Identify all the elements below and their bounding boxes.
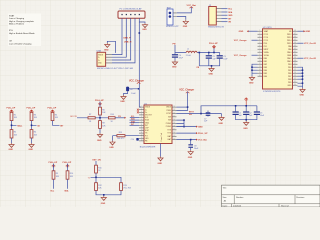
svg-text:22: 22 (173, 112, 175, 114)
wire U1 TS (113, 136, 140, 141)
svg-text:PC13: PC13 (264, 34, 269, 36)
svg-text:23: 23 (173, 109, 175, 111)
resistor R15 (horizontal) (117, 132, 125, 140)
junction (245, 105, 247, 107)
svg-text:R9: R9 (56, 173, 58, 175)
U2 right pins (293, 31, 298, 85)
svg-text:12: 12 (259, 63, 261, 65)
U1 right pin numbers (173, 106, 175, 141)
svg-text:44: 44 (294, 42, 296, 44)
svg-text:GND: GND (142, 29, 147, 31)
svg-text:PGND: PGND (166, 123, 172, 125)
wire J2 pin2 (222, 11, 228, 13)
wire USB shield to ground (107, 41, 115, 53)
svg-text:PA2: PA2 (264, 63, 267, 66)
svg-text:13: 13 (259, 66, 261, 68)
ground GND9 (243, 121, 249, 130)
svg-text:12: 12 (141, 134, 143, 136)
svg-text:R14: R14 (111, 114, 114, 116)
junction (139, 32, 141, 34)
junction (208, 52, 210, 54)
note text block (8, 14, 41, 47)
svg-text:GND: GND (219, 123, 224, 125)
svg-text:13: 13 (141, 137, 143, 139)
svg-text:C6: C6 (130, 89, 132, 91)
svg-text:47: 47 (294, 33, 296, 35)
svg-text:21: 21 (173, 116, 175, 118)
svg-text:18: 18 (173, 125, 175, 127)
svg-text:PULL-UP: PULL-UP (27, 108, 36, 110)
capacitor C1 (233, 111, 243, 118)
wire boot to PG (115, 117, 124, 119)
svg-text:PMID: PMID (167, 110, 172, 112)
wire chain5 (67, 179, 69, 189)
ground GND13 (101, 196, 107, 205)
U1 left pins (139, 107, 144, 141)
wire chain1 mid (12, 121, 17, 130)
U1 right pin names (166, 107, 172, 142)
wire U2 lower-left gnd bus (252, 64, 258, 75)
svg-text:R2: R2 (14, 132, 16, 134)
ground GND14 (158, 157, 164, 165)
wire U2 pin4 (252, 39, 258, 41)
svg-text:VCC_Bat: VCC_Bat (198, 139, 207, 142)
svg-text:17: 17 (173, 129, 175, 131)
wire chain3 (53, 121, 60, 126)
no-ERC mark U1 pin2 (137, 109, 139, 111)
junction (95, 177, 97, 179)
resistor R10 (66, 171, 74, 179)
svg-text:PB12: PB12 (287, 34, 291, 36)
connector BAT (166, 6, 179, 28)
svg-text:KF301-5.0-2P: KF301-5.0-2P (166, 26, 179, 28)
ic U1 charger (140, 103, 172, 148)
svg-text:D+: D+ (98, 60, 100, 62)
svg-text:PA6: PA6 (264, 75, 267, 78)
svg-text:PB6: PB6 (288, 73, 291, 75)
svg-text:GND: GND (287, 85, 292, 87)
svg-text:SW: SW (168, 116, 171, 118)
svg-text:39: 39 (294, 57, 296, 59)
svg-text:PB13: PB13 (287, 37, 291, 39)
junction (235, 105, 237, 107)
svg-text:VBUS: VBUS (166, 107, 172, 109)
svg-text:33: 33 (294, 75, 296, 77)
wire J2 pin1 (222, 8, 228, 10)
ground GND6 (300, 86, 306, 96)
svg-text:L1: L1 (187, 49, 189, 51)
wire P1 pin2 (112, 18, 126, 57)
net label KEY_ON (93, 160, 102, 166)
svg-text:SW: SW (189, 114, 192, 116)
svg-text:VCC_Osc32: VCC_Osc32 (304, 58, 317, 60)
junction (211, 65, 213, 67)
svg-text:GND: GND (158, 163, 163, 165)
svg-text:R4: R4 (34, 132, 36, 134)
svg-text:43: 43 (294, 45, 296, 47)
svg-text:32: 32 (294, 78, 296, 80)
junction (99, 117, 101, 119)
svg-text:VCC 3V3: VCC 3V3 (123, 188, 131, 190)
svg-text:HALL: HALL (17, 124, 23, 127)
svg-text:GND: GND (104, 50, 109, 52)
junction (190, 139, 192, 141)
wire chain1 bottom (11, 138, 13, 143)
ground GND4 (183, 20, 189, 28)
wire P1 pin4 (112, 18, 135, 63)
inductor L1 (186, 49, 197, 57)
ground GND7 (219, 114, 225, 125)
power port PULL-UP (chain4) (49, 162, 58, 171)
svg-text:GND: GND (300, 94, 305, 96)
junction (302, 82, 304, 84)
svg-text:R8: R8 (102, 123, 104, 125)
svg-text:R3: R3 (34, 114, 36, 116)
svg-text:VCC_Osc32: VCC_Osc32 (304, 43, 317, 45)
svg-text:PA5: PA5 (264, 72, 267, 75)
power port VCC_Bat (187, 4, 197, 8)
resistor R9 (52, 171, 60, 179)
svg-text:14: 14 (141, 140, 143, 142)
svg-text:PB3: PB3 (288, 64, 291, 66)
svg-text:VSSA: VSSA (264, 51, 270, 54)
junction (31, 125, 33, 127)
wire U2 right pin5 (298, 42, 304, 44)
resistor R5 (51, 112, 59, 120)
svg-text:VCC_Omega: VCC_Omega (234, 55, 247, 57)
svg-text:GND: GND (188, 157, 193, 159)
svg-text:PULL-UP: PULL-UP (48, 108, 57, 110)
power port VCC_Charger (right) (179, 90, 194, 94)
wire U1 VBUS right (177, 106, 188, 108)
title block (222, 185, 320, 208)
capacitor C4 (172, 54, 184, 59)
U2 left pin names (264, 30, 270, 78)
wire J2 pin4 (222, 18, 228, 20)
svg-text:Low = Enable Charging: Low = Enable Charging (9, 43, 32, 45)
svg-text:PB14: PB14 (287, 40, 291, 42)
capacitor C8 (188, 144, 199, 150)
U2 right pin names (287, 31, 292, 87)
svg-text:GND: GND (97, 140, 102, 142)
capacitor C7 (204, 111, 210, 123)
junction (245, 119, 247, 121)
svg-text:USB_P: USB_P (123, 38, 131, 40)
svg-text:10: 10 (259, 57, 261, 59)
wire filter top (175, 45, 220, 67)
net label PULL_UP (196, 132, 208, 135)
svg-text:PB9: PB9 (288, 82, 291, 84)
svg-text:48: 48 (294, 30, 296, 32)
svg-text:VCC_Charger: VCC_Charger (179, 90, 194, 92)
svg-text:14: 14 (173, 138, 175, 140)
svg-text:35: 35 (294, 69, 296, 71)
power port PULL-UP (boot divider) (95, 100, 104, 107)
resistor R4 (30, 130, 38, 138)
svg-text:GND: GND (306, 31, 311, 33)
svg-text:PA0: PA0 (264, 57, 267, 60)
svg-text:24: 24 (173, 106, 175, 108)
svg-text:Sheet of: Sheet of (281, 205, 289, 207)
svg-text:45: 45 (294, 39, 296, 41)
net label GND (U2 pin1) (239, 30, 249, 33)
svg-text:VCC_Omega: VCC_Omega (234, 40, 247, 42)
svg-text:PA4: PA4 (264, 69, 267, 72)
svg-text:PA9: PA9 (288, 48, 291, 51)
svg-text:PB7: PB7 (288, 76, 291, 78)
wire P1 pin3 (112, 18, 131, 60)
wire U2 right gnd bus (298, 67, 303, 86)
svg-text:PULL_UP: PULL_UP (198, 133, 208, 135)
svg-text:GND: GND (109, 147, 114, 149)
svg-text:2/4/2023: 2/4/2023 (233, 206, 242, 207)
svg-text:Power Pad: Power Pad (160, 133, 163, 141)
resistor R1 (10, 112, 18, 120)
power port PULL-UP (chain5) (63, 162, 72, 171)
svg-text:R15: R15 (119, 132, 122, 134)
wire BAT- to ground (177, 17, 186, 20)
ground GND12 (97, 133, 103, 142)
svg-text:GND: GND (249, 82, 254, 84)
wire U1 STAT (130, 122, 140, 124)
svg-text:GND: GND (120, 101, 125, 103)
svg-text:GND: GND (172, 67, 177, 69)
svg-text:PC14: PC14 (264, 37, 269, 39)
svg-text:C10: C10 (131, 139, 134, 141)
svg-text:SW: SW (168, 120, 171, 122)
svg-text:37: 37 (294, 63, 296, 65)
svg-text:R11: R11 (98, 167, 101, 169)
U2 left pin numbers (259, 30, 261, 77)
wire U1 INT (130, 124, 140, 126)
junction (11, 125, 13, 127)
svg-text:SDA: SDA (64, 190, 69, 193)
svg-text:15: 15 (259, 72, 261, 74)
svg-text:GND: GND (198, 127, 203, 129)
power port PULL-UP (filter) (209, 43, 218, 48)
U1 right pins (172, 107, 177, 140)
wire key node (91, 173, 122, 183)
svg-text:36: 36 (294, 66, 296, 68)
ground GND2 (104, 43, 110, 52)
junction (302, 78, 304, 80)
ground GND10 (9, 143, 15, 151)
resistor R8 (99, 121, 107, 129)
wire boot node (77, 115, 108, 121)
capacitor C2 (243, 111, 253, 118)
svg-text:PA1: PA1 (264, 60, 267, 63)
svg-text:PA12: PA12 (287, 57, 291, 60)
svg-text:30: 30 (294, 84, 296, 86)
junction (183, 126, 185, 128)
wire U2 right pin10 (298, 57, 304, 59)
net label PG (118, 116, 126, 119)
wire VBUS down (139, 22, 141, 107)
capacitor C5 (206, 55, 217, 60)
svg-text:PB8: PB8 (288, 79, 291, 81)
net label GND (U1 right) (196, 126, 203, 129)
ground GND5 (249, 75, 255, 85)
U2 right pin numbers (294, 30, 296, 86)
ic U2 STM32F103C8T6 (263, 27, 293, 93)
svg-text:PD1: PD1 (264, 46, 268, 48)
wire to input cap (124, 87, 139, 95)
svg-text:R5: R5 (55, 114, 57, 116)
ground GND16 (209, 67, 215, 75)
svg-text:R7: R7 (89, 114, 91, 116)
capacitor C3 (254, 111, 265, 118)
wire BAT+ to VCC_Bat (177, 7, 192, 13)
svg-text:Revision: Revision (296, 197, 305, 199)
svg-text:PA8: PA8 (288, 45, 291, 48)
wire boot bottom (99, 128, 101, 133)
svg-text:STM32F103C8T6: STM32F103C8T6 (263, 91, 281, 93)
connector P1 (118, 7, 145, 18)
svg-text:PC15: PC15 (264, 40, 269, 42)
wire U1 BAT out (177, 140, 197, 145)
resistor R11 (95, 165, 102, 173)
wire P1 pin5 to GND (139, 18, 145, 23)
junction (251, 66, 253, 68)
junction (302, 72, 304, 74)
resistor R6 (99, 107, 107, 115)
svg-text:PA11: PA11 (287, 54, 291, 57)
svg-text:High = Charging complete: High = Charging complete (9, 20, 35, 23)
svg-text:19: 19 (173, 122, 175, 124)
svg-text:MICRO-USB-3.1-B-TYPE-C-16P-SM: MICRO-USB-3.1-B-TYPE-C-16P-SM (97, 68, 133, 70)
svg-text:USB_N: USB_N (124, 41, 132, 43)
wire chain2 mid (32, 121, 37, 130)
power port PULL-UP (chain3) (48, 108, 57, 113)
junction (302, 69, 304, 71)
svg-text:11: 11 (141, 132, 143, 134)
svg-text:GND: GND (9, 149, 14, 151)
no-ERC mark U1 pin3 (137, 111, 139, 113)
wire U1 SDA (130, 119, 140, 121)
net label VCC_Bat (U1) (196, 139, 207, 142)
svg-text:41: 41 (294, 51, 296, 53)
wire U1 SYS pins bus (177, 120, 185, 127)
wire cap bank top rail (236, 106, 257, 121)
net label GND (U2 right) (304, 30, 311, 33)
svg-text:STAT: STAT (9, 15, 15, 18)
svg-text:16: 16 (173, 132, 175, 134)
junction (251, 69, 253, 71)
connector USB (97, 51, 134, 70)
svg-text:20: 20 (173, 119, 175, 121)
ground GND1 (142, 23, 148, 31)
wire U1 SCL (130, 117, 139, 119)
svg-text:2.2uH: 2.2uH (186, 55, 191, 57)
wire U1 PGND (177, 126, 197, 128)
resistor R7 (horizontal) (88, 114, 95, 123)
ground GND11 (29, 143, 35, 151)
ground GND3 (120, 95, 126, 103)
U1 left pin names (145, 107, 153, 143)
svg-text:R10: R10 (70, 173, 73, 175)
ground GND15 (172, 61, 178, 69)
svg-text:R6: R6 (102, 109, 104, 111)
svg-text:40: 40 (294, 54, 296, 56)
resistor R3 (30, 112, 38, 120)
svg-text:P1 COM-MUSB-05-AF: P1 COM-MUSB-05-AF (120, 7, 143, 10)
svg-text:GND: GND (239, 31, 244, 33)
svg-text:BOOT0: BOOT0 (70, 116, 76, 118)
resistor R2 (10, 130, 18, 138)
svg-text:PB5: PB5 (288, 70, 291, 72)
svg-text:Blink = Problem: Blink = Problem (9, 23, 24, 25)
svg-text:SDA: SDA (228, 11, 233, 14)
capacitor C9 (217, 55, 229, 60)
svg-text:High = Enable Boost Mode: High = Enable Boost Mode (9, 32, 35, 35)
svg-text:10K NTC: 10K NTC (117, 138, 125, 140)
junction (183, 119, 185, 121)
junction (138, 88, 140, 90)
ground GND17 (109, 141, 115, 150)
svg-text:PULL-UP: PULL-UP (7, 108, 16, 110)
svg-text:SM04B-SRSS-TB: SM04B-SRSS-TB (208, 27, 225, 29)
power port PULL-UP (chain1) (7, 108, 16, 113)
svg-text:KEY_ON: KEY_ON (93, 160, 102, 162)
svg-text:VCC_Charger: VCC_Charger (129, 80, 144, 82)
resistor R12 (95, 183, 103, 191)
U1 power pad stub (160, 144, 162, 157)
svg-text:BQ25185RGER: BQ25185RGER (140, 147, 156, 149)
svg-text:PD0: PD0 (264, 43, 268, 45)
svg-text:15: 15 (173, 135, 175, 137)
svg-text:14: 14 (259, 69, 261, 71)
wire U2 pin9 (252, 54, 258, 56)
connector J2 (208, 5, 225, 29)
resistor R13 (120, 183, 131, 191)
svg-text:34: 34 (294, 72, 296, 74)
svg-text:PA10: PA10 (287, 51, 291, 54)
svg-text:GND: GND (29, 149, 34, 151)
svg-text:GND: GND (209, 73, 214, 75)
power port VCC_Charger (left) (129, 80, 144, 83)
svg-text:PA3: PA3 (264, 66, 267, 69)
junction (103, 194, 105, 196)
svg-text:R12: R12 (98, 185, 101, 187)
ground GND8 (188, 150, 194, 159)
svg-text:/PG: /PG (9, 30, 13, 32)
wire U1 SW rail (177, 106, 258, 114)
svg-text:GND: GND (228, 15, 233, 17)
svg-text:GND: GND (183, 26, 188, 28)
svg-text:38: 38 (294, 60, 296, 62)
svg-text:R1: R1 (14, 114, 16, 116)
resistor R14 (horizontal) (108, 114, 115, 123)
wire chain2 bottom (31, 138, 33, 143)
svg-text:42: 42 (294, 48, 296, 50)
junction (213, 52, 215, 54)
svg-text:VDDA: VDDA (264, 54, 270, 57)
svg-text:16: 16 (259, 75, 261, 77)
capacitor C10 (131, 138, 139, 141)
svg-text:PA15: PA15 (287, 60, 291, 63)
junction (199, 52, 201, 54)
svg-text:T1: T1 (88, 177, 90, 179)
svg-text:Date:: Date: (223, 205, 228, 207)
svg-text:31: 31 (294, 81, 296, 83)
svg-text:PB4: PB4 (288, 67, 291, 69)
svg-text:46: 46 (294, 36, 296, 38)
U2 left pins (258, 31, 263, 76)
wire key bottom (96, 191, 121, 197)
junction (200, 113, 202, 115)
junction (302, 75, 304, 77)
U1 left pin numbers (141, 106, 143, 142)
